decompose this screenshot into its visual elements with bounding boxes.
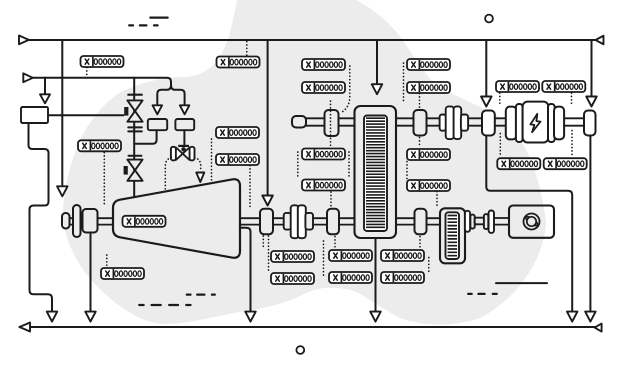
wire column drop xyxy=(375,238,377,311)
dotted gen to T17 xyxy=(571,131,573,157)
tag T7 X 000000 xyxy=(496,81,539,92)
arrow down S-pipe xyxy=(47,312,58,322)
decor line top-left xyxy=(150,16,167,18)
valve V1 (gate valve) xyxy=(127,100,142,121)
tag T22 X 000000 xyxy=(329,250,372,261)
dotted T14 T15 left xyxy=(406,162,408,179)
wire shaft r2 s4 xyxy=(240,218,260,224)
dotted gen to T16 xyxy=(499,134,501,157)
wire B1 to valve pipe xyxy=(134,130,156,144)
tag T14 X 000000 xyxy=(407,149,450,160)
tag T4 X 000000 xyxy=(302,82,345,93)
wire bearing block drop xyxy=(90,233,92,311)
arrow down x267 xyxy=(262,196,273,206)
wire shaft r1 s5 xyxy=(468,118,482,125)
wire shaft r2 s9 xyxy=(427,218,441,224)
dotted through C1 to T12 xyxy=(330,101,332,147)
dotted C3 to T20 xyxy=(262,236,264,250)
arrow down x572 xyxy=(567,312,578,322)
valve V2 top flange bar xyxy=(129,155,142,157)
dotted tags T3T4 right xyxy=(341,66,350,113)
wire shaft r2 s6 xyxy=(313,218,327,224)
dotted T8 down xyxy=(571,93,573,104)
valve V2 (gate valve) xyxy=(127,160,142,181)
valve V1 top flange bar xyxy=(128,94,142,96)
wire top rail xyxy=(29,39,603,41)
tag T13 X 000000 xyxy=(302,180,345,191)
wire B2 stem xyxy=(183,130,185,145)
arrow down x590 xyxy=(585,312,596,322)
dotted T10 down xyxy=(211,139,213,184)
arrow bottom-right (points left) xyxy=(595,324,602,332)
dotted T12 T13 right xyxy=(348,152,350,179)
wire dropper x591 xyxy=(591,40,593,96)
arrow down branch-right xyxy=(180,105,190,114)
wire shaft r1 s3 xyxy=(396,118,414,125)
tag T21 X 000000 xyxy=(271,273,314,284)
arrow down branch-left xyxy=(153,105,163,114)
motor M1 xyxy=(509,206,554,238)
wire dropper x486 xyxy=(485,40,487,96)
box reservoir R1 xyxy=(21,107,48,123)
tag T16 X 000000 xyxy=(497,158,540,169)
dotted C2 to T14 xyxy=(419,138,421,148)
wire shaft r2 s3 xyxy=(98,218,114,224)
decor line bottom-right xyxy=(496,282,547,284)
decor dashes bottom-right xyxy=(468,293,497,295)
wire turbine bleed xyxy=(240,228,251,311)
dotted T15 to gearbox xyxy=(436,192,438,207)
tag T9 X 000000 xyxy=(78,140,121,151)
coupling disc left xyxy=(73,205,81,237)
wire shaft r2 s5 xyxy=(273,218,284,224)
generator G1 xyxy=(506,102,564,143)
wire gen-left L-path xyxy=(486,136,572,311)
tag T2 X 000000 xyxy=(217,57,260,68)
wire shaft r1 s2 xyxy=(339,118,355,125)
arrow down x250 xyxy=(245,312,256,322)
wire shaft r1 s4 xyxy=(427,118,440,125)
dotted C4 to T22 xyxy=(334,237,336,249)
arrow down x62 xyxy=(57,186,68,196)
dotted T12 T13 left xyxy=(297,152,299,179)
tag T8 X 000000 xyxy=(542,81,585,92)
wire shaft r2 s1 xyxy=(70,218,74,224)
bearing block gen-right xyxy=(584,111,596,136)
tag T6 X 000000 xyxy=(407,82,450,93)
arrow down x45 xyxy=(40,94,50,103)
wire shaft r2 s8 xyxy=(396,218,415,224)
arrow down x486 xyxy=(481,97,492,107)
wire shaft r2 s10 xyxy=(494,218,509,225)
wire shaft r1 s1 xyxy=(306,118,324,125)
arrow down x90 xyxy=(85,312,96,322)
arrow top-left (points right) xyxy=(19,36,29,45)
coupling C2 xyxy=(414,110,427,136)
valve V1 bottom flanges xyxy=(128,127,142,131)
arrow down x375 xyxy=(370,312,381,322)
tag T18 X 000000 xyxy=(123,216,166,227)
decor dashes top-left xyxy=(129,24,157,26)
tag T24 X 000000 xyxy=(329,272,372,283)
tag T20 X 000000 xyxy=(271,251,314,262)
arrow down small CV1 xyxy=(196,173,204,183)
arrow down x591 xyxy=(586,97,597,107)
lightning bolt icon xyxy=(530,114,540,132)
wire branch split xyxy=(157,85,184,104)
wire drop x45 xyxy=(44,78,46,94)
dotted CV1 right leg xyxy=(195,158,201,171)
shaft stub row1 left xyxy=(292,116,306,128)
node circle top xyxy=(485,15,493,23)
dotted C3 to T21 xyxy=(268,236,270,273)
tag T5 X 000000 xyxy=(407,59,450,70)
dotted T11 down xyxy=(249,166,251,209)
dotted T7 down xyxy=(499,93,501,104)
turbine (trapezoid) xyxy=(113,179,240,258)
wire dropper x267 xyxy=(267,40,269,195)
arrow feed-left (points right) xyxy=(23,73,33,82)
bearing block left xyxy=(83,209,98,233)
dotted T23 to T25 xyxy=(428,258,430,272)
dotted T6 to C2 xyxy=(419,94,421,108)
decor dashes bottom-center row2 xyxy=(139,304,190,306)
box actuator-right B2 xyxy=(175,119,194,130)
wire gen-right drop xyxy=(589,136,591,311)
tag T25 X 000000 xyxy=(381,272,424,283)
dotted T19 up xyxy=(106,255,108,267)
tag T17 X 000000 xyxy=(544,158,587,169)
dotted tag1 xyxy=(86,68,88,77)
decor dashes bottom-center row1 xyxy=(187,293,215,295)
dotted tags T5T6 left xyxy=(403,63,405,103)
dotted col to T24 xyxy=(323,241,325,276)
coupling C5 xyxy=(415,209,427,235)
tag T11 X 000000 xyxy=(216,154,259,165)
gearbox (striped) xyxy=(440,208,465,263)
flange coupling FC1 xyxy=(440,106,469,139)
flange coupling FC2 xyxy=(284,205,313,238)
arrow down x377 xyxy=(372,84,383,94)
tag T12 X 000000 xyxy=(302,149,345,160)
coupling C4 xyxy=(327,209,339,235)
tag T23 X 000000 xyxy=(381,250,424,261)
wire shaft r2 s2 xyxy=(81,218,83,224)
tag T15 X 000000 xyxy=(407,180,450,191)
wire shaft r2 s7 xyxy=(339,218,355,224)
dotted C5 to T23 xyxy=(419,237,421,249)
coupling stub left end xyxy=(62,213,70,229)
wire bottom rail xyxy=(20,326,602,328)
gearbox output flanges xyxy=(465,211,494,233)
dotted tag2 xyxy=(246,42,248,56)
coupling C3 xyxy=(260,209,273,235)
wire S-pipe left xyxy=(29,123,53,311)
wire feed line y78 xyxy=(33,78,172,85)
arrow top-right (points left) xyxy=(596,36,604,45)
dotted T9 down xyxy=(103,153,105,207)
wire valve pipe x134 xyxy=(133,78,135,198)
dotted T13 to C4 xyxy=(330,192,332,207)
wire shaft r1 s7 xyxy=(564,118,584,125)
tag T1 X 000000 xyxy=(81,56,124,67)
tag T3 X 000000 xyxy=(302,59,345,70)
box actuator-left B1 xyxy=(148,119,167,130)
tag T19 X 000000 xyxy=(101,268,144,279)
wire shaft r1 s6 xyxy=(495,118,506,125)
bearing block gen-left xyxy=(482,111,495,136)
striped column (boiler) xyxy=(355,106,397,238)
tag T10 X 000000 xyxy=(216,127,259,138)
coupling C1 xyxy=(325,110,339,136)
node circle bottom xyxy=(296,346,304,354)
control valve CV1 xyxy=(171,146,195,161)
wire dropper x377 xyxy=(376,40,378,84)
dotted CV1 left leg xyxy=(165,158,171,192)
wire dropper x62 xyxy=(61,40,63,186)
arrow bottom-left (points left) xyxy=(20,323,31,332)
wire R1 to valve handle xyxy=(48,114,124,116)
